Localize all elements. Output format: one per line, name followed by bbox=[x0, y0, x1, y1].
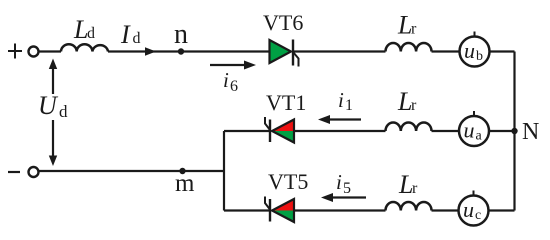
svg-text:i: i bbox=[338, 88, 344, 112]
svg-text:6: 6 bbox=[230, 78, 238, 95]
svg-text:U: U bbox=[38, 91, 59, 120]
svg-text:N: N bbox=[522, 119, 539, 145]
svg-text:u: u bbox=[464, 38, 475, 63]
svg-text:i: i bbox=[223, 68, 229, 92]
svg-text:d: d bbox=[59, 102, 68, 121]
svg-text:n: n bbox=[174, 19, 188, 50]
svg-text:a: a bbox=[476, 129, 483, 144]
svg-text:u: u bbox=[463, 197, 474, 222]
svg-text:d: d bbox=[87, 25, 95, 42]
svg-text:I: I bbox=[120, 20, 131, 49]
svg-text:5: 5 bbox=[343, 180, 351, 197]
svg-text:b: b bbox=[476, 49, 483, 64]
svg-text:u: u bbox=[464, 118, 475, 143]
svg-text:r: r bbox=[412, 180, 418, 197]
svg-text:VT1: VT1 bbox=[266, 90, 306, 115]
svg-text:c: c bbox=[475, 208, 481, 223]
svg-text:r: r bbox=[411, 21, 417, 38]
svg-text:m: m bbox=[175, 170, 195, 197]
svg-text:d: d bbox=[133, 30, 141, 47]
svg-text:VT5: VT5 bbox=[268, 169, 308, 194]
svg-text:r: r bbox=[411, 97, 417, 114]
svg-text:VT6: VT6 bbox=[263, 10, 303, 35]
svg-text:i: i bbox=[336, 170, 342, 194]
svg-text:1: 1 bbox=[345, 97, 353, 114]
